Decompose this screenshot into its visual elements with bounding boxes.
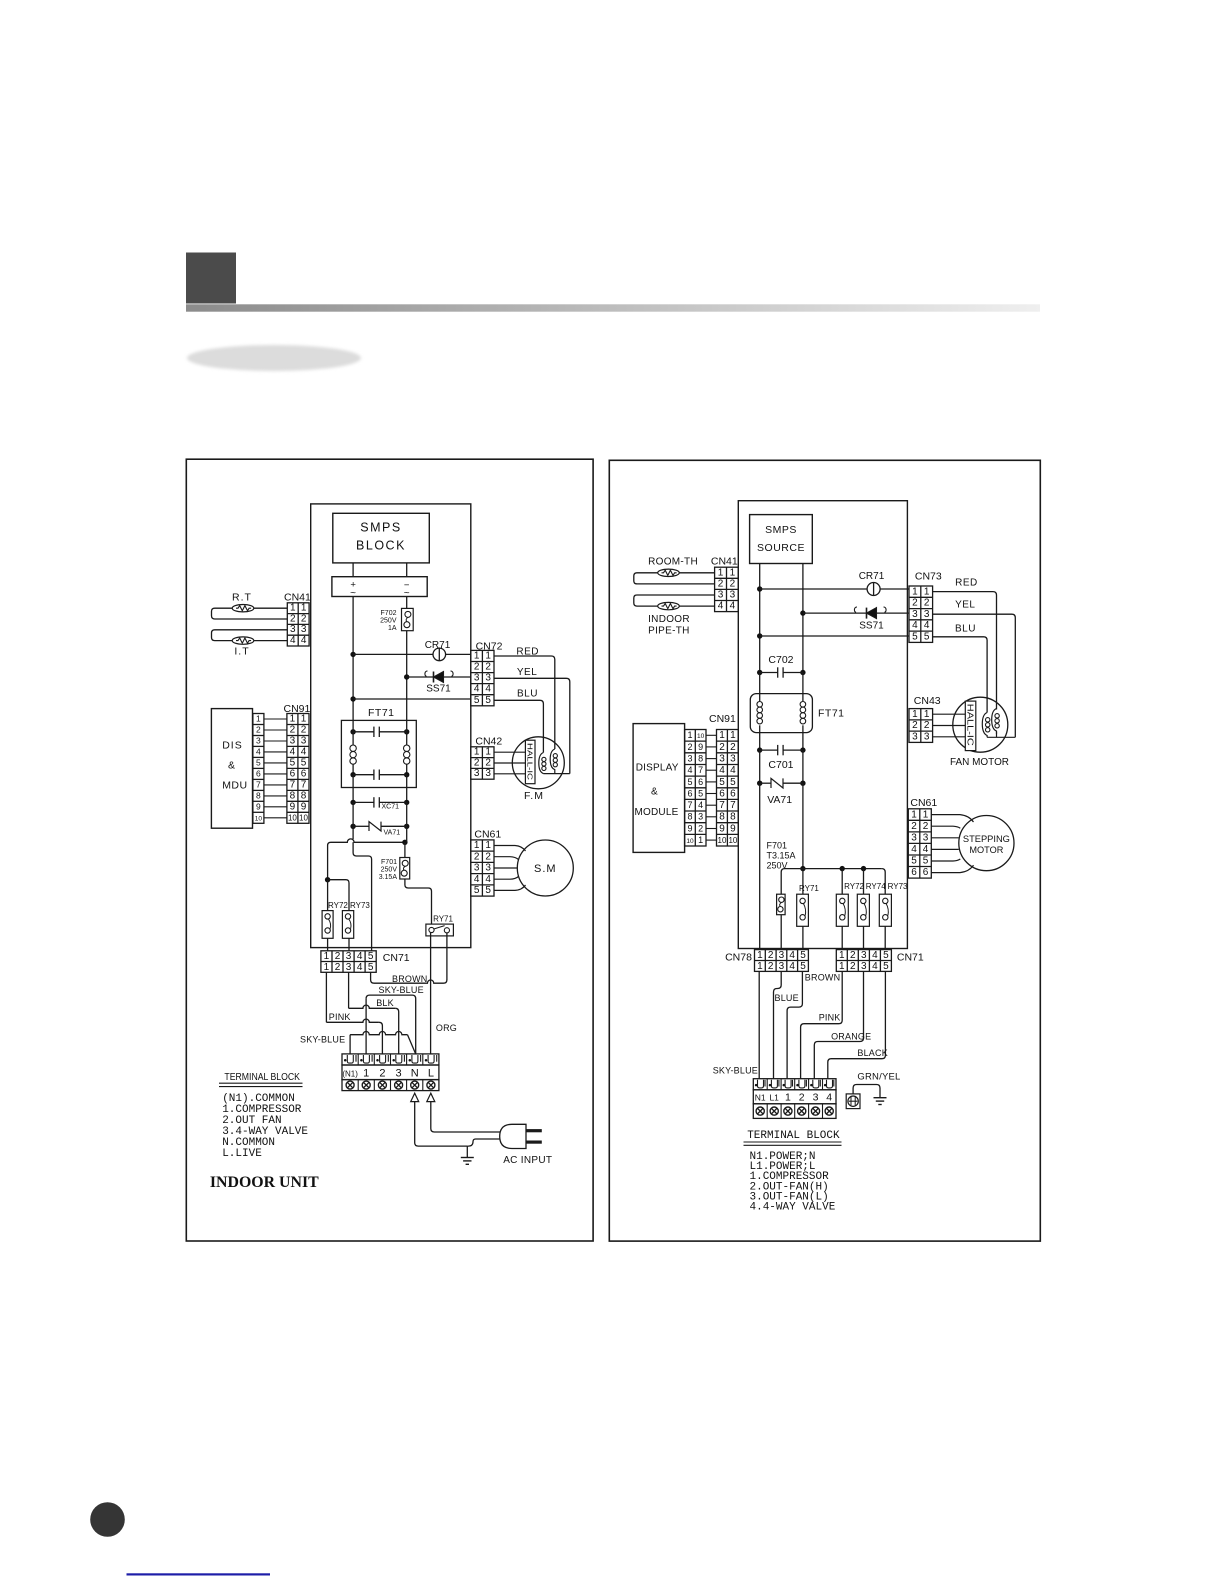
svg-text:2: 2 (379, 1067, 385, 1079)
AC wire L to plug (431, 1102, 500, 1132)
svg-text:T3.15A: T3.15A (767, 851, 796, 861)
svg-text:4: 4 (923, 844, 929, 855)
svg-text:F.M: F.M (524, 790, 544, 802)
svg-text:CN91: CN91 (709, 713, 736, 725)
svg-text:3: 3 (346, 962, 352, 973)
wire VA71 left down to hop (352, 826, 354, 839)
svg-text:10: 10 (728, 836, 737, 845)
svg-text:SOURCE: SOURCE (757, 542, 805, 554)
junction dot CR71 line outdoor (757, 586, 762, 591)
outdoor PCB block outline (738, 501, 907, 949)
svg-text:10: 10 (288, 813, 297, 822)
FT71 bottom capacitor (350, 772, 355, 777)
svg-text:L: L (428, 1067, 434, 1079)
svg-text:4: 4 (357, 962, 363, 973)
svg-text:F701: F701 (767, 841, 788, 851)
svg-text:3: 3 (474, 768, 480, 779)
svg-text:2: 2 (924, 720, 930, 731)
svg-text:1: 1 (839, 950, 845, 961)
svg-text:3: 3 (924, 731, 930, 742)
svg-text:TERMINAL BLOCK: TERMINAL BLOCK (224, 1072, 300, 1083)
svg-text:10: 10 (686, 838, 694, 845)
svg-text:1: 1 (363, 1067, 369, 1079)
svg-text:HALL-IC: HALL-IC (525, 743, 534, 780)
wire FT71 left down (352, 775, 354, 803)
hall IC in fan motor (525, 740, 535, 784)
wire SKY-BLUE upper CN71 area to terminal N (366, 995, 416, 1054)
svg-text:N: N (411, 1067, 419, 1079)
FT71 left winding (352, 720, 354, 745)
svg-text:1: 1 (485, 747, 491, 758)
svg-text:3: 3 (730, 590, 736, 601)
fan motor F.M (512, 737, 564, 789)
svg-text:6: 6 (301, 768, 307, 779)
varistor VA71 outdoor (759, 750, 761, 783)
wire branch to RY73 (328, 880, 349, 911)
svg-text:250V: 250V (380, 618, 397, 625)
svg-text:4: 4 (485, 684, 491, 695)
svg-text:&: & (228, 760, 235, 772)
triac SS71 (434, 672, 444, 683)
wire to SS71 (407, 676, 471, 678)
svg-text:5: 5 (883, 961, 889, 972)
svg-text:1: 1 (474, 840, 480, 851)
svg-text:1: 1 (485, 840, 491, 851)
svg-text:2: 2 (256, 725, 261, 735)
svg-text:2: 2 (485, 662, 491, 673)
svg-text:1: 1 (290, 714, 296, 725)
svg-text:10: 10 (718, 836, 727, 845)
svg-text:3: 3 (396, 1067, 402, 1079)
svg-text:8: 8 (687, 812, 692, 822)
svg-text:SKY-BLUE: SKY-BLUE (379, 985, 424, 995)
wires DISPLAY to CN91 outdoor (706, 734, 717, 736)
svg-text:BLU: BLU (955, 624, 976, 635)
svg-text:4: 4 (698, 800, 703, 810)
wire CR71 to CN73 pin1 (880, 588, 909, 590)
svg-text:RY72: RY72 (328, 901, 348, 910)
svg-text:1: 1 (924, 709, 930, 720)
svg-text:FT71: FT71 (368, 707, 395, 719)
svg-text:1: 1 (839, 961, 845, 972)
svg-text:7: 7 (687, 800, 692, 810)
wire C702 to FT71 left (759, 673, 761, 702)
svg-text:3: 3 (290, 624, 296, 635)
svg-text:DIS: DIS (222, 740, 243, 752)
earth screw terminal (846, 1094, 860, 1109)
svg-text:9: 9 (256, 801, 261, 811)
wires CN61 to stepping motor (931, 815, 973, 822)
svg-text:5: 5 (730, 777, 736, 788)
FT71 right winding (406, 720, 408, 745)
svg-text:3: 3 (718, 590, 724, 601)
branch wire with hop to RY72/RY73 (328, 839, 405, 879)
svg-text:3: 3 (912, 609, 918, 620)
svg-text:SS71: SS71 (426, 684, 451, 695)
wire F701 to relay RY71 (405, 879, 432, 924)
svg-text:FAN MOTOR: FAN MOTOR (950, 757, 1009, 768)
wire BLK CN71-3 to terminal 3 (348, 972, 350, 1008)
junction dot relay branch (325, 877, 330, 882)
svg-text:7: 7 (301, 779, 307, 790)
svg-text:5: 5 (800, 950, 806, 961)
line-filter FT71 outdoor (750, 694, 812, 733)
svg-text:BROWN: BROWN (392, 974, 428, 984)
svg-text:5: 5 (912, 631, 918, 642)
svg-text:1: 1 (324, 962, 330, 973)
fuse F702 (402, 608, 414, 630)
wire RED to fan motor outdoor (933, 592, 997, 710)
wire PINK CN71-1 to terminal 2 (801, 971, 843, 1078)
svg-text:S.M: S.M (534, 863, 557, 875)
svg-text:7: 7 (719, 800, 725, 811)
wires DIS to CN91 (264, 718, 287, 720)
svg-text:10: 10 (697, 733, 705, 740)
wires CN43 to hall sensor outdoor (933, 713, 966, 715)
svg-text:2: 2 (301, 613, 307, 624)
FT71 top capacitor (350, 729, 355, 734)
svg-text:2: 2 (687, 742, 692, 752)
svg-text:PIPE-TH: PIPE-TH (648, 626, 690, 637)
svg-text:1: 1 (256, 714, 261, 724)
wire earth to ground (853, 1085, 880, 1098)
svg-text:2: 2 (923, 821, 929, 832)
svg-text:MOTOR: MOTOR (969, 845, 1003, 855)
hall IC outdoor (965, 701, 976, 751)
svg-text:4: 4 (730, 601, 736, 612)
wire BLU to fan motor outdoor (933, 637, 988, 713)
wire RED CN72-1 to fan motor (494, 656, 555, 749)
svg-text:RY73: RY73 (888, 882, 908, 891)
wire VA71 left to CN78 pin1 (759, 783, 761, 949)
svg-text:8: 8 (719, 812, 725, 823)
svg-text:4: 4 (485, 874, 491, 885)
junction dot at DC- branch (402, 840, 407, 845)
svg-text:PINK: PINK (819, 1013, 841, 1023)
svg-text:1: 1 (485, 651, 491, 662)
node DC- wire to fuse F702 (406, 597, 408, 609)
header section ellipse (187, 345, 361, 371)
svg-text:MODULE: MODULE (635, 807, 679, 818)
svg-text:2: 2 (474, 757, 480, 768)
svg-text:3: 3 (779, 950, 785, 961)
fan motor winding 1 (539, 753, 544, 774)
svg-text:3: 3 (301, 735, 307, 746)
svg-text:2: 2 (768, 950, 774, 961)
svg-text:5: 5 (485, 885, 491, 896)
svg-text:1: 1 (924, 586, 930, 597)
svg-text:7: 7 (730, 800, 736, 811)
svg-text:BROWN: BROWN (805, 973, 841, 983)
svg-text:6: 6 (730, 788, 736, 799)
svg-text:3: 3 (912, 731, 918, 742)
fan motor outdoor winding 1 (982, 713, 987, 738)
svg-text:1: 1 (912, 586, 918, 597)
svg-text:DISPLAY: DISPLAY (636, 763, 679, 774)
outdoor terminal block (753, 1079, 836, 1090)
svg-text:2: 2 (290, 613, 296, 624)
svg-text:4: 4 (301, 746, 307, 757)
svg-text:BLOCK: BLOCK (356, 539, 406, 553)
svg-text:6: 6 (719, 788, 725, 799)
svg-text:5: 5 (800, 961, 806, 972)
fuse F701 outdoor (777, 894, 786, 915)
relay feed rail (800, 866, 805, 871)
svg-text:1: 1 (474, 747, 480, 758)
svg-text:2: 2 (768, 961, 774, 972)
svg-text:VA71: VA71 (384, 830, 401, 837)
svg-text:1: 1 (719, 730, 725, 741)
svg-text:9: 9 (687, 823, 692, 833)
svg-text:2: 2 (912, 598, 918, 609)
svg-text:FT71: FT71 (818, 708, 845, 720)
svg-text:CR71: CR71 (425, 640, 451, 651)
svg-text:4: 4 (474, 684, 480, 695)
svg-text:3: 3 (474, 863, 480, 874)
svg-text:5: 5 (474, 885, 480, 896)
svg-text:HALL-IC: HALL-IC (966, 704, 975, 747)
wire to CN73 pin5 (760, 635, 909, 637)
wire to SS71 outdoor (803, 612, 909, 614)
wire BLACK CN71-5 to terminal 4 (828, 971, 886, 1078)
svg-text:RY71: RY71 (433, 915, 453, 924)
wire ORANGE CN71-3 to terminal 3 (814, 971, 863, 1078)
svg-text:RY73: RY73 (350, 901, 370, 910)
stepping motor S.M (517, 840, 573, 896)
svg-text:1: 1 (698, 835, 703, 845)
svg-text:5: 5 (301, 757, 307, 768)
svg-text:3: 3 (346, 951, 352, 962)
svg-text:CN78: CN78 (725, 952, 752, 964)
protective earth at AC input (466, 1146, 468, 1157)
svg-text:CN61: CN61 (474, 829, 501, 841)
svg-text:3: 3 (698, 812, 703, 822)
svg-text:3: 3 (301, 624, 307, 635)
wire RY71 left to terminal L (ORG) (430, 933, 432, 936)
svg-text:6: 6 (911, 867, 917, 878)
svg-text:5: 5 (698, 788, 703, 798)
svg-text:1: 1 (290, 603, 296, 614)
svg-text:CN41: CN41 (284, 592, 311, 604)
svg-text:C702: C702 (768, 654, 793, 666)
AC input arrow N (411, 1093, 419, 1101)
svg-text:2: 2 (335, 962, 341, 973)
AC wire N to plug (415, 1102, 468, 1147)
svg-text:4: 4 (912, 620, 918, 631)
wire node to CN72 pin5 (353, 698, 471, 700)
rectifier +/- box (332, 577, 427, 597)
SMPS SOURCE box (750, 515, 813, 564)
wire YEL CN72-3 to fan motor (494, 678, 570, 773)
svg-text:1: 1 (324, 951, 330, 962)
wire RY73 to CN71 pin3 (348, 938, 350, 951)
svg-text:4: 4 (730, 765, 736, 776)
svg-text:3: 3 (730, 753, 736, 764)
svg-text:250V: 250V (381, 867, 398, 874)
svg-text:10: 10 (255, 815, 263, 822)
header chapter square (186, 253, 236, 304)
svg-text:6: 6 (256, 768, 261, 778)
SMPS BLOCK box U-SMPS (333, 513, 430, 563)
fan motor outdoor winding 2 (992, 709, 997, 735)
wire FT71 right down (406, 775, 408, 803)
svg-text:10: 10 (299, 813, 308, 822)
svg-text:AC INPUT: AC INPUT (503, 1155, 552, 1166)
wire CN78-1 to terminal N1 (758, 971, 760, 1078)
svg-text:CN71: CN71 (383, 952, 410, 964)
svg-text:3: 3 (861, 961, 867, 972)
diode CR71 (433, 648, 446, 661)
svg-text:5: 5 (368, 962, 374, 973)
svg-text:&: & (651, 787, 658, 798)
svg-text:7: 7 (256, 779, 261, 789)
svg-text:5: 5 (290, 757, 296, 768)
svg-text:5: 5 (924, 631, 930, 642)
svg-text:RED: RED (955, 578, 978, 589)
svg-text:4.4-WAY VALVE: 4.4-WAY VALVE (750, 1202, 836, 1214)
svg-text:7: 7 (698, 765, 703, 775)
svg-text:3: 3 (813, 1092, 819, 1104)
svg-text:9: 9 (730, 823, 736, 834)
svg-text:C701: C701 (768, 759, 793, 771)
svg-text:5: 5 (474, 695, 480, 706)
display module DISPLAY & MODULE (633, 724, 685, 853)
wires CN42 to hall sensor (494, 751, 525, 753)
DIS pin header (253, 714, 264, 824)
svg-text:L.LIVE: L.LIVE (222, 1148, 262, 1160)
AC input arrow L (427, 1093, 435, 1101)
svg-text:YEL: YEL (955, 600, 975, 611)
svg-text:2: 2 (912, 720, 918, 731)
svg-text:1: 1 (730, 730, 736, 741)
svg-text:RY74: RY74 (866, 882, 886, 891)
svg-text:1: 1 (912, 709, 918, 720)
svg-text:2: 2 (301, 725, 307, 736)
svg-text:CN61: CN61 (910, 797, 937, 809)
wire RY71 right to BROWN (446, 933, 448, 936)
header gradient rule (186, 304, 1040, 311)
svg-text:VA71: VA71 (767, 794, 792, 806)
wire FT71 to C701 (759, 725, 761, 750)
svg-text:2: 2 (924, 598, 930, 609)
svg-text:4: 4 (687, 765, 692, 775)
svg-text:R.T: R.T (232, 592, 252, 604)
svg-text:2: 2 (730, 578, 736, 589)
svg-text:3: 3 (485, 673, 491, 684)
wire F702 to SS71 node (406, 631, 408, 721)
svg-text:3: 3 (290, 735, 296, 746)
svg-text:BLK: BLK (376, 998, 394, 1008)
indoor PCB block outline (311, 504, 471, 948)
svg-text:3: 3 (779, 961, 785, 972)
svg-text:4: 4 (718, 601, 724, 612)
svg-text:4: 4 (826, 1092, 832, 1104)
svg-text:PINK: PINK (329, 1012, 351, 1022)
svg-text:4: 4 (789, 950, 795, 961)
svg-text:3: 3 (485, 863, 491, 874)
wire RY72 to CN71 pin1 (327, 938, 329, 951)
svg-text:5: 5 (883, 950, 889, 961)
junction dot SS71 outdoor (800, 610, 805, 615)
svg-text:RY71: RY71 (799, 884, 819, 893)
AC plug (500, 1124, 526, 1148)
svg-text:5: 5 (368, 951, 374, 962)
svg-text:2: 2 (730, 742, 736, 753)
indoor terminal block (342, 1054, 439, 1065)
wire CR71 to CN72 pin1 (446, 653, 471, 655)
svg-text:2: 2 (719, 742, 725, 753)
svg-text:MDU: MDU (222, 780, 247, 792)
junction dot CR71 feed (350, 652, 355, 657)
svg-text:9: 9 (301, 801, 307, 812)
svg-text:(N1): (N1) (342, 1069, 358, 1078)
svg-text:1: 1 (301, 714, 307, 725)
svg-text:1: 1 (301, 603, 307, 614)
svg-text:YEL: YEL (517, 667, 537, 678)
svg-text:2: 2 (474, 851, 480, 862)
svg-text:ROOM-TH: ROOM-TH (648, 557, 698, 568)
svg-text:2: 2 (850, 961, 856, 972)
svg-text:2: 2 (474, 662, 480, 673)
svg-text:RY72: RY72 (844, 882, 864, 891)
connector CN71 indoor (321, 951, 376, 973)
svg-text:CN43: CN43 (914, 695, 941, 707)
svg-text:9: 9 (719, 823, 725, 834)
svg-text:1: 1 (757, 950, 763, 961)
svg-text:4: 4 (872, 950, 878, 961)
display module DIS & MDU (211, 709, 252, 829)
wire SMPS right down (802, 564, 804, 673)
svg-text:6: 6 (290, 768, 296, 779)
svg-text:1: 1 (923, 809, 929, 820)
svg-text:2: 2 (911, 821, 917, 832)
svg-text:5: 5 (911, 856, 917, 867)
svg-text:3: 3 (719, 753, 725, 764)
wire neutral jog to CN71 pin5 (353, 842, 372, 951)
svg-text:SKY-BLUE: SKY-BLUE (300, 1035, 345, 1045)
svg-text:4: 4 (474, 874, 480, 885)
svg-text:3: 3 (485, 768, 491, 779)
svg-text:5: 5 (687, 777, 692, 787)
svg-text:BLACK: BLACK (857, 1048, 888, 1058)
svg-text:SS71: SS71 (859, 621, 884, 632)
svg-text:2: 2 (718, 578, 724, 589)
svg-text:ORANGE: ORANGE (831, 1032, 871, 1042)
ground symbol outdoor (874, 1097, 887, 1099)
svg-text:2: 2 (485, 757, 491, 768)
svg-text:4: 4 (290, 635, 296, 646)
svg-text:F701: F701 (381, 859, 397, 866)
svg-text:2: 2 (850, 950, 856, 961)
svg-text:BLU: BLU (517, 689, 538, 700)
svg-text:2: 2 (290, 725, 296, 736)
svg-text:2: 2 (799, 1092, 805, 1104)
svg-text:7: 7 (290, 779, 296, 790)
svg-text:8: 8 (730, 812, 736, 823)
svg-text:TERMINAL BLOCK: TERMINAL BLOCK (747, 1130, 840, 1142)
wire SMPS to rectifier + (352, 563, 354, 577)
svg-text:2: 2 (698, 823, 703, 833)
svg-text:5: 5 (923, 856, 929, 867)
wire BLU CN72-5 to fan motor (494, 700, 543, 752)
svg-text:2: 2 (485, 851, 491, 862)
wire PINK CN71-1 to terminal 2 (325, 972, 327, 1022)
triac SS71 outdoor (867, 608, 877, 619)
svg-text:8: 8 (698, 753, 703, 763)
svg-text:1: 1 (911, 809, 917, 820)
stepping motor (959, 816, 1014, 871)
svg-text:STEPPING: STEPPING (963, 834, 1010, 844)
